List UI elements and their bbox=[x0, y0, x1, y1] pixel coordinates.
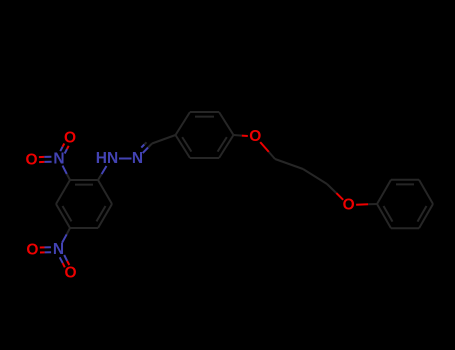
svg-text:O: O bbox=[26, 242, 38, 259]
svg-text:O: O bbox=[249, 128, 261, 145]
svg-text:O: O bbox=[25, 151, 37, 168]
svg-text:O: O bbox=[343, 197, 355, 214]
svg-text:O: O bbox=[64, 264, 76, 281]
svg-text:N: N bbox=[53, 241, 64, 258]
svg-text:N: N bbox=[53, 151, 64, 168]
svg-text:N: N bbox=[132, 150, 143, 167]
svg-text:O: O bbox=[64, 130, 76, 147]
svg-text:HN: HN bbox=[96, 150, 118, 167]
